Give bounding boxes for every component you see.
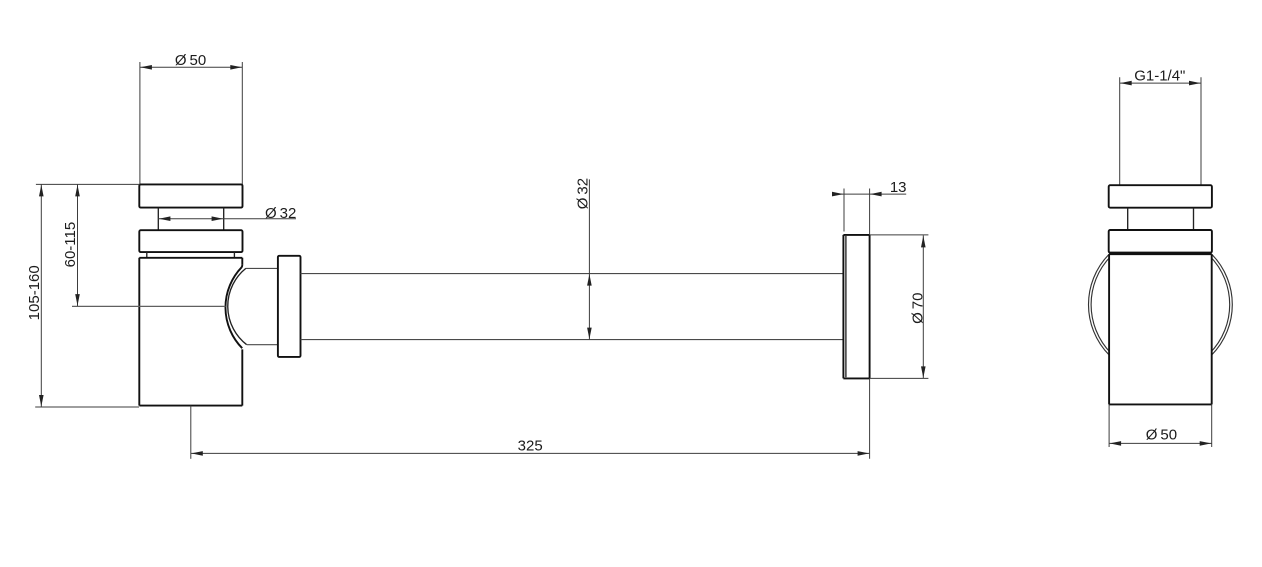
svg-text:60-115: 60-115 <box>62 222 79 268</box>
svg-text:13: 13 <box>890 179 907 196</box>
svg-text:G1-1/4": G1-1/4" <box>1134 68 1185 85</box>
svg-text:Ø 32: Ø 32 <box>574 178 591 209</box>
svg-text:105-160: 105-160 <box>26 265 43 320</box>
svg-text:325: 325 <box>518 438 543 455</box>
svg-text:Ø 50: Ø 50 <box>1146 427 1177 444</box>
svg-text:Ø 32: Ø 32 <box>265 205 296 222</box>
svg-text:Ø 50: Ø 50 <box>175 52 206 69</box>
svg-text:Ø 70: Ø 70 <box>910 293 927 324</box>
